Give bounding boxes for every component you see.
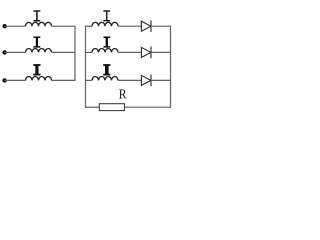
inductor L4 <box>92 22 118 26</box>
wire bus to L4 <box>85 25 92 27</box>
current label I3 <box>33 65 40 75</box>
left star-point bus wire <box>74 26 76 81</box>
wire bus to resistor R <box>85 106 99 108</box>
node C (phase terminal, bottom left) <box>2 78 6 82</box>
current label I6 <box>103 65 110 75</box>
diode D1 <box>141 20 151 32</box>
node B (phase terminal, middle left) <box>2 50 6 54</box>
wire D1 to right bus <box>151 25 171 27</box>
current label I1 <box>34 11 41 21</box>
diode D3 <box>141 75 151 87</box>
diode D2 <box>141 47 151 59</box>
wire resistor R to right bus <box>125 106 172 108</box>
resistor R <box>99 104 124 111</box>
current label I2 <box>34 37 41 47</box>
wire bus to L5 <box>85 51 92 53</box>
wire D2 to right bus <box>151 51 171 53</box>
wire node B to L2 <box>5 51 26 53</box>
inductor L3 <box>26 76 52 80</box>
current label I4 <box>103 11 110 21</box>
wire L2 to left bus <box>52 51 76 53</box>
wire D3 to right bus <box>151 79 171 81</box>
wire L5 to D2 <box>118 51 141 53</box>
current label I5 <box>103 37 110 47</box>
inductor L2 <box>26 49 52 53</box>
wire L6 to D3 <box>118 79 141 81</box>
right section left bus wire <box>85 26 87 108</box>
inductor L6 <box>92 76 118 80</box>
svg-text:R: R <box>119 87 127 102</box>
wire bus to L6 <box>85 79 92 81</box>
wire L1 to left bus <box>52 25 76 27</box>
node A (phase terminal, top left) <box>2 24 6 28</box>
wire node C to L3 <box>5 79 26 81</box>
wire L3 to left bus <box>52 79 76 81</box>
inductor L5 <box>92 49 118 53</box>
wire node A to L1 <box>5 25 26 27</box>
wire L4 to D1 <box>118 25 141 27</box>
right bus wire <box>170 26 172 108</box>
inductor L1 <box>26 22 52 26</box>
